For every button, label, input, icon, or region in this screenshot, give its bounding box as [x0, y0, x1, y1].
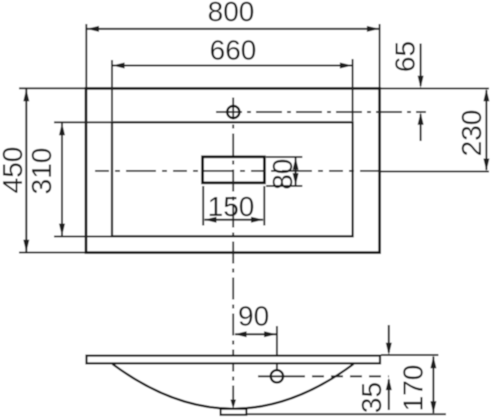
- svg-text:170: 170: [397, 365, 428, 412]
- svg-text:450: 450: [0, 147, 28, 194]
- svg-text:35: 35: [356, 382, 387, 413]
- svg-text:230: 230: [456, 110, 487, 157]
- svg-text:150: 150: [208, 191, 255, 222]
- vertical centerline: [232, 98, 234, 404]
- svg-text:90: 90: [238, 300, 269, 331]
- faucet hole: [227, 106, 239, 118]
- svg-text:80: 80: [267, 159, 298, 190]
- dimension 450: [0, 88, 85, 252]
- dimension 310: [26, 122, 111, 236]
- side view faucet hole: [258, 370, 389, 382]
- svg-text:660: 660: [210, 34, 257, 65]
- dimension 80: [266, 157, 302, 190]
- drain outline: [221, 409, 247, 415]
- svg-text:800: 800: [208, 0, 255, 27]
- svg-text:310: 310: [26, 148, 57, 195]
- top view outer rim rectangle: [86, 88, 380, 252]
- svg-text:65: 65: [390, 41, 421, 72]
- dimension 150: [203, 186, 264, 226]
- overflow box horizontal centerline: [95, 170, 380, 172]
- overflow box: [203, 157, 265, 183]
- dimension 65: [390, 41, 424, 141]
- dimension 230: [381, 88, 490, 171]
- top view inner basin rectangle: [112, 122, 353, 236]
- dimension 35: [356, 325, 392, 413]
- dimension 660: [112, 34, 353, 121]
- basin bowl curve: [113, 364, 354, 409]
- dimension 800: [86, 0, 379, 87]
- dimension 90: [234, 300, 277, 370]
- centerline bottom arrow: [230, 400, 236, 410]
- side view countertop slab: [87, 356, 381, 364]
- dimension 170: [246, 355, 446, 414]
- faucet hole horizontal centerline: [216, 111, 426, 113]
